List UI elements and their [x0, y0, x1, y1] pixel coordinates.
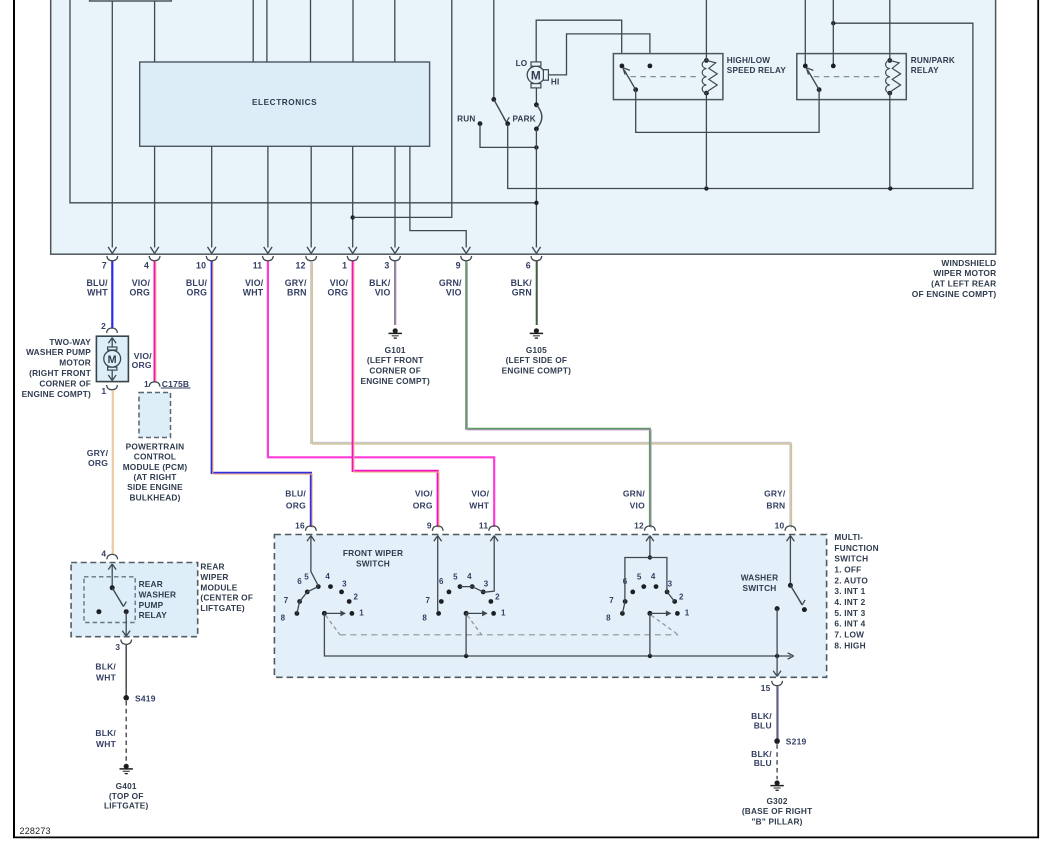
svg-text:BRN: BRN — [287, 288, 307, 298]
svg-text:1: 1 — [101, 386, 106, 396]
pin 10 exit arrow and connector — [206, 247, 217, 261]
run/park relay — [797, 54, 955, 100]
svg-text:BULKHEAD): BULKHEAD) — [129, 492, 180, 502]
svg-text:BLK/: BLK/ — [95, 662, 116, 672]
svg-text:ORG: ORG — [328, 288, 349, 298]
svg-text:SWITCH: SWITCH — [743, 583, 777, 593]
svg-text:ORG: ORG — [413, 500, 433, 510]
svg-text:PARK: PARK — [513, 114, 536, 123]
pin 6 number label — [526, 261, 531, 271]
pin 3 number label — [384, 261, 389, 271]
svg-text:SWITCH: SWITCH — [834, 554, 868, 564]
svg-text:7: 7 — [102, 261, 107, 271]
pin 1 number label — [342, 261, 347, 271]
svg-text:BLU/: BLU/ — [86, 278, 108, 288]
svg-text:7. LOW: 7. LOW — [834, 629, 864, 639]
wire high/low coil bottom to loop — [705, 93, 707, 188]
svg-text:WHT: WHT — [469, 500, 490, 510]
svg-text:RELAY: RELAY — [911, 66, 939, 75]
run label — [457, 114, 475, 123]
svg-text:G101: G101 — [385, 345, 406, 355]
wire top to electronics c — [310, 0, 312, 62]
wire switch3 common to bus — [649, 613, 651, 656]
svg-text:ORG: ORG — [88, 458, 108, 468]
pin 10 number label — [196, 261, 206, 271]
svg-text:HIGH/LOW: HIGH/LOW — [727, 56, 771, 65]
svg-text:3: 3 — [384, 261, 389, 271]
node coil feed run/park — [888, 186, 892, 190]
svg-text:4: 4 — [651, 572, 656, 581]
wire blk/wht s419 to ground g401 — [125, 701, 127, 763]
wire top box to pin 7 — [111, 1, 113, 248]
pin 3 exit arrow and connector — [390, 247, 401, 261]
ground G302 — [770, 780, 783, 790]
svg-text:10: 10 — [196, 261, 206, 271]
svg-text:1: 1 — [342, 261, 347, 271]
svg-text:16: 16 — [295, 521, 305, 531]
svg-text:228273: 228273 — [20, 826, 51, 836]
svg-text:5: 5 — [637, 572, 642, 581]
svg-text:G401: G401 — [116, 781, 137, 791]
svg-text:VIO/: VIO/ — [471, 489, 489, 499]
svg-text:WIPER MOTOR: WIPER MOTOR — [933, 268, 996, 278]
run contact — [478, 121, 483, 126]
svg-text:BLU: BLU — [754, 758, 772, 768]
svg-text:REAR: REAR — [200, 562, 224, 572]
svg-text:FUNCTION: FUNCTION — [834, 543, 878, 553]
ground G401 label — [104, 781, 149, 810]
svg-text:7: 7 — [284, 596, 289, 605]
wire top to electronics e — [394, 0, 396, 62]
wire top to electronics a — [252, 0, 254, 62]
ground G401 — [120, 764, 133, 774]
svg-text:LIFTGATE): LIFTGATE) — [104, 801, 149, 811]
windshield wiper motor box — [51, 0, 996, 254]
svg-text:4: 4 — [467, 572, 472, 581]
wire run/park coil top to top — [889, 0, 891, 60]
svg-text:4: 4 — [325, 572, 330, 581]
run-park switch arm — [494, 99, 510, 122]
svg-text:11: 11 — [253, 261, 263, 271]
svg-text:7: 7 — [609, 596, 614, 605]
svg-text:6: 6 — [297, 577, 302, 586]
front wiper switch rotor 2 — [422, 536, 506, 623]
rear module pin 4 cup — [107, 554, 118, 559]
wire motor bottom to park arc — [535, 88, 537, 105]
node run wire to pin6 wire — [534, 145, 538, 149]
svg-text:SWITCH: SWITCH — [356, 558, 390, 568]
svg-text:MODULE: MODULE — [200, 582, 237, 592]
wire electronics to pin 10 — [211, 146, 213, 247]
svg-text:1: 1 — [685, 608, 690, 617]
mfs pin 11 number — [479, 521, 488, 531]
svg-text:WHT: WHT — [87, 288, 108, 298]
svg-text:4. INT 2: 4. INT 2 — [834, 597, 865, 607]
splice S419 — [123, 694, 155, 704]
svg-text:WASHER: WASHER — [139, 589, 177, 599]
blk/blu label b — [751, 749, 772, 768]
wire top to electronics b — [266, 0, 268, 62]
mfs pin 15 cup — [772, 681, 783, 686]
svg-text:2: 2 — [353, 593, 358, 602]
wire blu/org pin10 to mfs pin16 — [212, 261, 312, 528]
svg-text:WHT: WHT — [96, 739, 117, 749]
mfs pin 12 number — [634, 521, 644, 531]
pin 12 number label — [296, 261, 306, 271]
svg-text:(CENTER OF: (CENTER OF — [200, 593, 253, 603]
svg-text:LIFTGATE): LIFTGATE) — [200, 603, 245, 613]
wiper motor M — [527, 62, 548, 88]
bus wire in mfs — [324, 613, 793, 659]
svg-text:2. AUTO: 2. AUTO — [834, 575, 868, 585]
svg-text:SPEED RELAY: SPEED RELAY — [727, 66, 787, 75]
svg-text:5: 5 — [304, 572, 309, 581]
svg-text:1: 1 — [359, 608, 364, 617]
mfs pin 9 number — [427, 521, 432, 531]
wire blk/blu s219 to ground g302 — [776, 744, 778, 779]
svg-text:WASHER PUMP: WASHER PUMP — [26, 347, 91, 357]
svg-text:GRY/: GRY/ — [285, 278, 307, 288]
front wiper switch rotor 1 — [281, 536, 365, 623]
svg-text:RUN/PARK: RUN/PARK — [911, 56, 955, 65]
svg-text:GRN/: GRN/ — [439, 278, 462, 288]
svg-text:12: 12 — [296, 261, 306, 271]
pin 6 wire color label — [511, 278, 533, 298]
svg-text:GRY/: GRY/ — [764, 489, 786, 499]
wire electronics to pin 12 — [310, 146, 312, 247]
wire top to electronics d — [352, 0, 354, 62]
wire electronics to pin 11 — [267, 146, 269, 247]
wire run/park pivot to top — [804, 0, 806, 64]
svg-text:3: 3 — [115, 642, 120, 652]
svg-text:BLU: BLU — [754, 720, 772, 730]
svg-text:8. HIGH: 8. HIGH — [834, 640, 865, 650]
svg-text:6. INT 4: 6. INT 4 — [834, 619, 865, 629]
washer switch arm — [790, 585, 805, 605]
svg-text:ENGINE COMPT): ENGINE COMPT) — [360, 376, 429, 386]
blk/wht label a — [95, 662, 116, 683]
svg-text:6: 6 — [526, 261, 531, 271]
svg-text:4: 4 — [144, 261, 149, 271]
wire top box to electronics pin4 wire — [154, 1, 156, 62]
pin 1 exit arrow and connector — [347, 247, 358, 261]
svg-text:3. INT 1: 3. INT 1 — [834, 586, 865, 596]
svg-text:VIO: VIO — [375, 288, 391, 298]
svg-text:8: 8 — [422, 613, 427, 622]
splice S219 — [774, 737, 806, 747]
mfs pin 11 wire label — [469, 489, 490, 511]
svg-text:11: 11 — [479, 521, 488, 531]
svg-text:(TOP OF: (TOP OF — [109, 791, 144, 801]
mfs pin 12 connector — [645, 526, 656, 541]
wire gry/org washer pump to rear relay — [111, 390, 114, 554]
svg-text:"B" PILLAR): "B" PILLAR) — [752, 816, 803, 826]
rear wiper module label — [200, 562, 253, 614]
svg-text:BLU/: BLU/ — [285, 489, 306, 499]
svg-text:10: 10 — [775, 521, 785, 531]
pin 12 wire color label — [285, 278, 307, 298]
svg-text:S219: S219 — [786, 737, 807, 747]
two-way washer pump motor box — [96, 336, 128, 381]
pin 9 number label — [456, 261, 461, 271]
svg-text:REAR: REAR — [139, 579, 163, 589]
svg-text:G302: G302 — [767, 796, 788, 806]
svg-text:MULTI-: MULTI- — [834, 532, 863, 542]
node pin6 wire at bus — [534, 201, 538, 205]
svg-text:1: 1 — [144, 379, 149, 389]
svg-text:BLK/: BLK/ — [511, 278, 533, 288]
powertrain control module box — [139, 393, 171, 438]
pin 4 exit arrow and connector — [149, 247, 160, 261]
rear module pin 4 number — [101, 548, 106, 558]
lo label — [516, 59, 528, 68]
wire washer contact to pin 15 — [773, 609, 781, 677]
ground G302 label — [742, 796, 813, 826]
high/low speed relay — [613, 54, 786, 100]
washer switch arm contact — [802, 607, 807, 612]
svg-text:5. INT 3: 5. INT 3 — [834, 608, 865, 618]
vio/org wire label at pcm — [132, 351, 153, 370]
pin 6 exit arrow and connector — [531, 247, 542, 261]
svg-text:(AT RIGHT: (AT RIGHT — [133, 472, 176, 482]
svg-text:VIO/: VIO/ — [245, 278, 264, 288]
svg-text:WASHER: WASHER — [741, 573, 779, 583]
wire motor lo to high/low relay pivot — [536, 20, 622, 63]
svg-text:VIO/: VIO/ — [415, 489, 433, 499]
pin 4 number label — [144, 261, 149, 271]
rear washer pump relay label — [139, 579, 177, 620]
svg-text:BLU/: BLU/ — [186, 278, 208, 288]
rear washer pump relay — [96, 564, 130, 636]
svg-text:TWO-WAY: TWO-WAY — [49, 337, 91, 347]
svg-text:1. OFF: 1. OFF — [834, 565, 861, 575]
svg-text:CORNER OF: CORNER OF — [39, 378, 91, 388]
svg-text:PUMP: PUMP — [139, 600, 164, 610]
svg-text:3: 3 — [342, 579, 347, 588]
pin 2 connector cup — [107, 328, 118, 333]
svg-text:ORG: ORG — [129, 288, 150, 298]
washer pump motor label — [22, 337, 92, 399]
switch gang dashed line — [326, 615, 679, 635]
park arc contact top — [534, 102, 539, 107]
svg-text:9: 9 — [456, 261, 461, 271]
diagram number label — [20, 826, 51, 836]
svg-text:M: M — [108, 354, 117, 366]
pin 9 wire color label — [439, 278, 462, 298]
svg-text:15: 15 — [761, 683, 771, 693]
wire run/park coil bottom to loop — [889, 93, 891, 188]
park arc — [536, 105, 541, 129]
svg-text:WIPER: WIPER — [200, 572, 228, 582]
svg-text:LO: LO — [516, 59, 528, 68]
node bus switch2 — [464, 654, 468, 658]
svg-text:CORNER OF: CORNER OF — [369, 366, 421, 376]
svg-text:S419: S419 — [135, 694, 156, 704]
blk/blu label a — [751, 711, 772, 730]
mfs pin 15 number — [761, 683, 771, 693]
svg-text:ENGINE COMPT): ENGINE COMPT) — [502, 366, 571, 376]
mfs pin 10 connector — [785, 526, 796, 541]
svg-text:1: 1 — [501, 608, 506, 617]
svg-text:GRY/: GRY/ — [87, 448, 109, 458]
powertrain control module label — [123, 441, 188, 502]
svg-text:WHT: WHT — [96, 673, 117, 683]
wire high/low arm to run/park arm — [636, 90, 819, 133]
svg-text:G105: G105 — [526, 345, 547, 355]
electronics module box — [140, 62, 430, 146]
wire motor hi to high/low relay contact — [548, 34, 650, 75]
svg-text:3: 3 — [668, 579, 673, 588]
svg-text:RUN: RUN — [457, 114, 475, 123]
svg-text:(LEFT FRONT: (LEFT FRONT — [367, 355, 424, 365]
blk/wht label b — [95, 728, 116, 749]
svg-text:(BASE OF RIGHT: (BASE OF RIGHT — [742, 806, 813, 816]
multi-function switch label — [834, 532, 878, 650]
wire blu/wht pin7 to washer pump — [111, 261, 113, 328]
svg-text:WHT: WHT — [243, 288, 264, 298]
node run/park relay contact feed — [831, 21, 835, 25]
node on pin 1 wire — [351, 215, 355, 219]
svg-text:9: 9 — [427, 521, 432, 531]
wire vio/org pin4 to pcm — [155, 261, 156, 382]
svg-text:8: 8 — [606, 613, 611, 622]
svg-text:7: 7 — [425, 596, 430, 605]
svg-text:8: 8 — [281, 613, 286, 622]
wire vio/org pin1 to mfs pin9 — [353, 261, 439, 528]
electronics label — [252, 98, 317, 107]
svg-text:VIO/: VIO/ — [132, 278, 151, 288]
ground G101 label — [360, 345, 429, 386]
ground G105 — [530, 328, 543, 338]
wire electronics to pin 9 — [410, 146, 466, 247]
rear washer pump relay box — [84, 577, 135, 623]
run-park switch feed wire — [493, 0, 495, 99]
mfs pin 11 connector — [489, 526, 500, 541]
svg-text:(RIGHT FRONT: (RIGHT FRONT — [29, 368, 91, 378]
wire gry/brn pin12 to mfs pin10 — [311, 261, 791, 528]
svg-text:GRN/: GRN/ — [623, 489, 645, 499]
svg-text:VIO: VIO — [630, 500, 645, 510]
washer switch pivot — [788, 583, 793, 588]
svg-text:(AT LEFT REAR: (AT LEFT REAR — [931, 279, 996, 289]
pin 7 wire color label — [86, 278, 108, 298]
svg-text:3: 3 — [484, 579, 489, 588]
wire park arc to pin 6 — [535, 129, 537, 248]
svg-text:MOTOR: MOTOR — [59, 358, 91, 368]
pin 1 number — [101, 386, 106, 396]
wire from top to long horizontal bus — [70, 0, 536, 203]
front wiper switch label — [343, 548, 403, 569]
mfs pin 16 number — [295, 521, 305, 531]
svg-text:(LEFT SIDE OF: (LEFT SIDE OF — [506, 355, 568, 365]
svg-text:BLK/: BLK/ — [95, 728, 116, 738]
rear module pin 3 cup — [121, 640, 132, 645]
node bus switch3 — [648, 654, 652, 658]
pin 11 number label — [253, 261, 263, 271]
c175b pin 1 number — [144, 379, 149, 389]
wire grn/vio pin9 to mfs pin12 — [466, 261, 651, 528]
run-park switch pivot — [491, 97, 496, 102]
svg-text:4: 4 — [101, 548, 106, 558]
front wiper switch rotor 3 — [606, 536, 690, 623]
mfs pin 16 connector — [306, 526, 317, 541]
wire park common to relay coils loop — [508, 23, 973, 188]
svg-text:6: 6 — [439, 577, 444, 586]
node coil feed high/low — [704, 186, 708, 190]
svg-text:OF ENGINE COMPT): OF ENGINE COMPT) — [912, 289, 997, 299]
ground G105 label — [502, 345, 571, 376]
hi label — [551, 77, 560, 86]
wire blk/wht pin3 to splice s419 — [125, 645, 127, 698]
top connector box — [90, 0, 172, 1]
park label — [513, 114, 536, 123]
pin 10 wire color label — [186, 278, 208, 298]
c175b label — [161, 379, 191, 389]
svg-text:ELECTRONICS: ELECTRONICS — [252, 98, 317, 107]
svg-text:HI: HI — [551, 77, 560, 86]
svg-text:FRONT WIPER: FRONT WIPER — [343, 548, 403, 558]
svg-text:SIDE ENGINE: SIDE ENGINE — [127, 482, 183, 492]
svg-text:CONTROL: CONTROL — [134, 452, 176, 462]
svg-text:2: 2 — [101, 321, 106, 331]
svg-text:5: 5 — [453, 572, 458, 581]
wire run/park contact to top — [832, 0, 834, 64]
wire electronics to pin 4 — [154, 146, 156, 247]
pin 12 exit arrow and connector — [306, 247, 317, 261]
wire electronics to pin 1 — [352, 146, 354, 247]
svg-text:POWERTRAIN: POWERTRAIN — [126, 441, 185, 451]
park contact — [505, 121, 510, 126]
svg-text:GRN: GRN — [512, 288, 532, 298]
washer pump motor symbol — [104, 338, 121, 381]
pin 11 exit arrow and connector — [263, 247, 274, 261]
svg-text:MODULE (PCM): MODULE (PCM) — [123, 462, 188, 472]
pin 1 connector cup — [107, 385, 118, 390]
wire blk/blu pin15 to s219 — [776, 686, 779, 741]
mfs pin 16 wire label — [285, 489, 306, 511]
pin 9 exit arrow and connector — [461, 247, 472, 261]
svg-text:BRN: BRN — [766, 500, 785, 510]
ground G101 — [389, 328, 402, 338]
pin 7 exit arrow and connector — [107, 247, 118, 261]
mfs pin 10 number — [775, 521, 785, 531]
multi-function switch box — [274, 535, 826, 678]
svg-text:RELAY: RELAY — [139, 610, 168, 620]
svg-text:ORG: ORG — [187, 288, 208, 298]
pin 3 wire color label — [369, 278, 391, 298]
pin 2 number — [101, 321, 106, 331]
mfs pin 10 wire label — [764, 489, 786, 511]
mfs pin 9 wire label — [413, 489, 433, 511]
park arc contact bottom — [534, 126, 539, 131]
wire run contact to pin6 wire — [480, 124, 536, 148]
rear wiper module box — [71, 563, 198, 637]
svg-text:ENGINE COMPT): ENGINE COMPT) — [22, 389, 91, 399]
rear module pin 3 number — [115, 642, 120, 652]
svg-text:ORG: ORG — [132, 360, 152, 370]
svg-text:2: 2 — [495, 593, 500, 602]
svg-text:ORG: ORG — [286, 500, 306, 510]
svg-text:2: 2 — [679, 593, 684, 602]
svg-text:12: 12 — [634, 521, 644, 531]
gry/org label — [87, 448, 109, 468]
c175b connector cup — [149, 382, 160, 387]
mfs pin 12 wire label — [623, 489, 645, 511]
washer switch label — [741, 573, 779, 593]
pin 1 wire color label — [328, 278, 349, 298]
svg-text:M: M — [531, 68, 541, 82]
wire blk/vio pin3 to ground g101 — [394, 261, 397, 325]
